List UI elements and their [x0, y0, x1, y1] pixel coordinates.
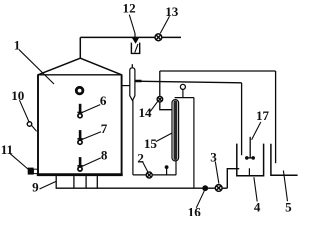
- leader for label 9: [40, 181, 57, 189]
- electrode 17 right bead: [251, 156, 255, 160]
- svg-text:2: 2: [137, 150, 144, 165]
- blind flange block 11: [28, 168, 34, 175]
- valve 3: [215, 185, 222, 192]
- svg-text:13: 13: [165, 4, 179, 19]
- pipe A downcomer to vessel 5: [275, 71, 277, 163]
- svg-text:8: 8: [101, 148, 108, 163]
- receiver vessel 5: [271, 144, 298, 175]
- receiver vessel 4: [237, 144, 264, 176]
- cylinder left stub to tank: [123, 85, 130, 87]
- support skirt leg b: [73, 176, 75, 188]
- port ring on tank roof area: [76, 87, 83, 94]
- condenser bottom stem: [175, 160, 177, 175]
- leader for label 7: [81, 132, 101, 140]
- sample point dot: [165, 165, 169, 169]
- leader for label 17: [252, 122, 261, 140]
- top feed pipe: [80, 36, 181, 38]
- valve 14: [157, 96, 163, 102]
- leader for label 16: [196, 191, 204, 208]
- svg-text:1: 1: [14, 37, 21, 52]
- svg-text:7: 7: [101, 121, 108, 136]
- leader for label 13: [160, 16, 169, 33]
- support skirt leg a: [55, 176, 57, 188]
- reflux receiver cylinder body: [130, 68, 135, 101]
- support skirt leg d: [96, 176, 98, 188]
- svg-text:17: 17: [256, 108, 270, 123]
- valve 13: [155, 34, 162, 41]
- vent pipe riser from roof apex: [79, 37, 81, 58]
- condenser jacket top: [175, 97, 194, 99]
- leader for label 2: [142, 161, 148, 172]
- vapour pipe A (upper): [160, 70, 276, 72]
- leader for label 6: [81, 105, 100, 113]
- drain nozzle stub (item 11): [33, 169, 38, 173]
- condenser inlet elbow: [160, 102, 173, 110]
- leader for label 8: [82, 158, 101, 167]
- reflux receiver cylinder top nub: [131, 64, 133, 68]
- tank T1 top edge: [37, 74, 122, 76]
- svg-text:16: 16: [188, 204, 202, 216]
- svg-text:9: 9: [32, 179, 39, 194]
- sample point stem: [166, 168, 168, 175]
- condenser tube 15 outer: [172, 100, 179, 161]
- leader for label 12: [129, 15, 135, 34]
- electrode 17 lower stem: [248, 168, 250, 175]
- tank T1 roof: [38, 58, 122, 75]
- wall port circle (item 10): [27, 122, 31, 126]
- condenser jacket right pipe: [193, 98, 195, 189]
- svg-text:5: 5: [285, 199, 292, 214]
- cylinder right stub (thick): [135, 80, 142, 83]
- svg-text:11: 11: [1, 142, 13, 157]
- condenser tube 15 core: [174, 101, 178, 160]
- cylinder downpipe: [132, 101, 134, 175]
- leader for label 4: [254, 177, 257, 201]
- svg-text:15: 15: [144, 136, 158, 151]
- condenser port stem: [182, 89, 184, 97]
- funnel 12 stem tick: [134, 33, 136, 37]
- electrode 17 crossbar: [246, 157, 254, 159]
- stirrer paddle 7: [77, 130, 82, 144]
- leader for label 11: [10, 154, 28, 170]
- valve 16 (cock): [202, 185, 208, 191]
- tank T1 bottom: [37, 173, 123, 176]
- funnel 12 cup: [131, 43, 139, 54]
- funnel 12 cup inner line: [135, 44, 138, 53]
- electrode assembly 17 shaft: [249, 137, 251, 158]
- tank T1 left wall: [37, 75, 39, 176]
- support skirt leg c: [85, 176, 87, 188]
- bottom pipe riser elbow to vessel 4: [227, 169, 239, 189]
- valve 2: [146, 172, 152, 178]
- leader for label 10: [20, 100, 37, 131]
- pipe B downcomer to vessel 4: [241, 83, 243, 155]
- svg-text:6: 6: [100, 93, 107, 108]
- svg-text:14: 14: [138, 105, 152, 120]
- bottom drain pipe: [56, 187, 228, 189]
- svg-text:4: 4: [254, 199, 261, 214]
- vapour pipe B (lower): [135, 81, 242, 83]
- electrode 17 left bead: [245, 156, 249, 160]
- svg-text:12: 12: [123, 1, 136, 16]
- reflux pipe with valve 2: [133, 174, 176, 176]
- stirrer paddle 6: [77, 104, 82, 118]
- svg-text:10: 10: [11, 88, 25, 103]
- leader for label 5: [283, 171, 287, 202]
- funnel 12 cone: [133, 38, 139, 43]
- leader for label 14: [150, 102, 157, 112]
- tank T1 right wall: [121, 75, 123, 176]
- circle overlay on leader 10: [27, 122, 31, 126]
- leader for label 1: [19, 50, 54, 84]
- svg-text:3: 3: [210, 150, 217, 165]
- branch line to valve 14: [159, 71, 161, 97]
- leader for label 15: [156, 133, 173, 142]
- condenser port circle: [180, 84, 185, 89]
- leader for label 3: [215, 162, 219, 184]
- stirrer paddle 8: [77, 157, 82, 171]
